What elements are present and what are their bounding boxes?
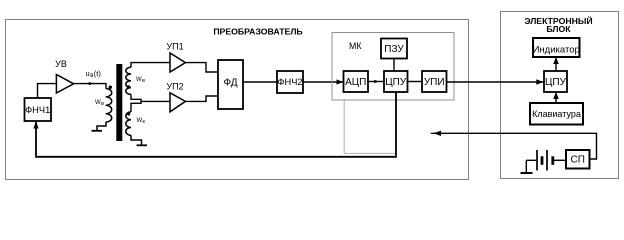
power wire СП to converter with arrow <box>433 133 597 159</box>
svg-text:ЦПУ: ЦПУ <box>545 77 567 88</box>
svg-text:УПИ: УПИ <box>424 77 445 88</box>
ground tick under secondary <box>131 135 142 145</box>
block ЦПУ (electronic unit) <box>544 71 567 92</box>
block Индикатор <box>533 38 580 57</box>
svg-text:АЦП: АЦП <box>345 77 366 88</box>
transformer secondary winding Wв (top) <box>126 67 145 94</box>
wire ФД to ФНЧ2 <box>243 81 277 83</box>
block МК (microcontroller) <box>332 33 454 101</box>
svg-text:Клавиатура: Клавиатура <box>532 109 581 119</box>
svg-text:(t): (t) <box>94 69 102 78</box>
wire ФНЧ1 to УВ <box>38 84 57 98</box>
wire ПЗУ to ЦПУ <box>393 59 395 72</box>
svg-text:в: в <box>142 78 145 84</box>
block ФНЧ1 <box>25 98 52 121</box>
wire ЦПУ to УПИ <box>408 81 423 83</box>
wire Клавиатура to ЦПУ with arrow <box>555 93 557 103</box>
wire ЦПУ to Индикатор with arrow <box>555 58 557 71</box>
svg-text:ПЗУ: ПЗУ <box>384 44 404 55</box>
block ФД <box>218 60 243 109</box>
transformer secondary winding Wк (bottom) <box>126 112 146 135</box>
block Клавиатура <box>530 103 583 125</box>
wire УПИ to ЦПУ of electronic unit with arrow <box>447 81 544 83</box>
svg-text:ФД: ФД <box>223 78 237 89</box>
svg-text:ЦПУ: ЦПУ <box>385 77 407 88</box>
ground <box>521 160 533 173</box>
svg-text:МК: МК <box>349 41 362 51</box>
block ЦПУ (МК) <box>384 71 408 92</box>
wire secondary Wв top to УП1 <box>131 63 170 68</box>
svg-text:ФНЧ1: ФНЧ1 <box>25 105 50 115</box>
ground tick under primary <box>97 122 106 130</box>
svg-text:БЛОК: БЛОК <box>546 24 571 34</box>
outer box ЭЛЕКТРОННЫЙ БЛОК <box>501 12 619 179</box>
block АЦП <box>344 71 369 92</box>
svg-text:u: u <box>86 69 90 78</box>
svg-text:УП2: УП2 <box>166 82 183 92</box>
block СП <box>566 150 590 169</box>
svg-text:Индикатор: Индикатор <box>533 44 580 55</box>
svg-text:в: в <box>101 101 104 107</box>
svg-text:СП: СП <box>570 155 584 166</box>
wire ФНЧ2 to АЦП with arrow <box>303 81 344 83</box>
block УПИ <box>422 71 447 92</box>
transformer core <box>116 64 122 141</box>
svg-text:УП1: УП1 <box>166 42 183 52</box>
svg-text:УВ: УВ <box>55 59 67 69</box>
feedback wire ЦПУ to ФНЧ1 with arrow <box>36 92 396 157</box>
op-amp УП1 <box>166 42 185 73</box>
outer box ПРЕОБРАЗОВАТЕЛЬ <box>6 20 469 180</box>
transformer primary winding Wв <box>95 86 112 123</box>
op-amp УП2 <box>166 82 185 112</box>
op-amp УВ <box>55 59 73 93</box>
faint ghost wire АЦП column to feedback line <box>344 101 395 154</box>
block ПЗУ <box>381 39 407 59</box>
block ФНЧ2 <box>277 71 303 93</box>
junction wires between secondaries to УП2 <box>131 94 170 101</box>
wire УП2 to ФД <box>185 96 218 101</box>
wire УП1 to ФД <box>185 63 218 72</box>
wire АЦП to ЦПУ with arrow <box>368 81 384 83</box>
wire УВ to transformer, node uв(t) <box>74 69 106 89</box>
svg-text:ПРЕОБРАЗОВАТЕЛЬ: ПРЕОБРАЗОВАТЕЛЬ <box>213 27 302 37</box>
svg-text:ФНЧ2: ФНЧ2 <box>277 77 302 87</box>
battery GB <box>526 150 566 171</box>
